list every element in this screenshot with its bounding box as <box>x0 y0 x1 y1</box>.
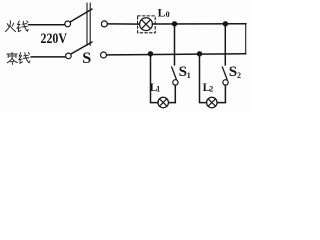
wire L2 branch left <box>200 54 207 103</box>
switch S2 terminal <box>223 80 228 85</box>
svg-text:1: 1 <box>187 71 191 80</box>
svg-text:L: L <box>158 8 166 20</box>
wire top rail right segment <box>152 23 246 25</box>
switch S1 blade <box>172 67 177 80</box>
lamp L2 <box>207 97 218 108</box>
wire S1 to lamp corner <box>168 85 175 103</box>
svg-text:S: S <box>179 64 187 80</box>
switch S pole2 terminal right <box>101 52 107 58</box>
svg-text:1: 1 <box>156 84 160 93</box>
wire L1 branch left <box>151 54 159 103</box>
label 火线 (live wire text, drawn strokes) <box>5 21 28 32</box>
wire top rail left segment <box>107 23 139 25</box>
switch S2 blade <box>222 67 227 80</box>
label 零线 (neutral wire text, drawn strokes) <box>7 52 30 64</box>
switch S pole1 terminal right <box>101 21 107 27</box>
wire S1 drop from top rail <box>174 24 176 65</box>
svg-text:220V: 220V <box>41 31 68 47</box>
wire live lead <box>29 24 65 26</box>
svg-text:S: S <box>229 64 237 80</box>
lamp L1 <box>158 97 169 108</box>
wire neutral rail <box>107 54 246 55</box>
wire S2 drop from top rail <box>224 24 226 65</box>
svg-text:2: 2 <box>237 71 241 80</box>
wire right edge vertical <box>245 24 247 54</box>
switch S pole1 blade <box>70 9 92 22</box>
lamp L0 dashed enclosure <box>138 16 156 33</box>
switch S linkage bars <box>86 3 88 46</box>
wire neutral lead <box>31 56 66 58</box>
switch S pole1 terminal left <box>65 21 71 27</box>
lamp L0 <box>140 18 153 31</box>
svg-text:S: S <box>82 49 91 67</box>
node junction dot 2 <box>223 21 228 26</box>
wire S2 to lamp corner <box>217 85 225 103</box>
node junction dot 1 <box>172 21 177 26</box>
switch S pole2 terminal left <box>66 53 72 59</box>
node junction dot A <box>148 51 153 56</box>
svg-text:0: 0 <box>166 10 170 19</box>
switch S pole2 blade <box>71 42 92 54</box>
switch S1 terminal <box>173 80 178 85</box>
svg-text:2: 2 <box>209 84 213 93</box>
node junction dot B <box>197 51 202 56</box>
